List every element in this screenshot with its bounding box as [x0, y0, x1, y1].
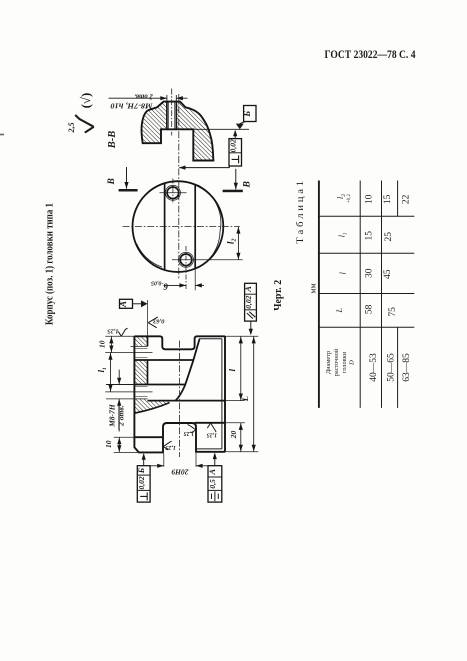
dimension 6-0,05 [164, 284, 187, 286]
svg-text:22: 22 [402, 194, 412, 204]
svg-text:Т а б л и ц а 1: Т а б л и ц а 1 [295, 181, 306, 244]
svg-text:М8-7Н, h10: М8-7Н, h10 [110, 102, 153, 111]
svg-text:1,25: 1,25 [165, 444, 176, 450]
svg-text:0,5: 0,5 [208, 479, 217, 489]
svg-text:0,02: 0,02 [137, 476, 146, 489]
svg-text:10: 10 [365, 194, 375, 204]
svg-text:мм: мм [309, 283, 318, 293]
hole2 bottom edge [106, 398, 148, 400]
svg-text:75: 75 [388, 307, 398, 317]
perpendicularity frame leader up arrow [234, 131, 236, 139]
hole1 thread lines [134, 347, 147, 349]
svg-text:расточной: расточной [333, 348, 340, 376]
main section view [96, 283, 258, 502]
datum A extension line [147, 300, 149, 336]
dimension 20Н9 [163, 454, 165, 467]
inner chamfer arc right [197, 185, 221, 268]
svg-text:В: В [107, 178, 117, 185]
M8 hole centerline [171, 89, 173, 136]
dimension 10 bottom left [114, 436, 135, 438]
svg-text:1,25: 1,25 [184, 430, 195, 436]
slot chord left [164, 183, 166, 269]
top chamfer line [199, 338, 222, 340]
dimension l2 [237, 227, 239, 260]
bottom face ext right [225, 451, 258, 453]
horizontal centerline [123, 226, 240, 228]
step line bottom left [134, 436, 163, 438]
M8 dimension line [109, 95, 188, 101]
svg-text:40—53: 40—53 [369, 353, 379, 382]
table grid [318, 181, 414, 408]
M8 hole bore lines [166, 102, 168, 130]
svg-text:D: D [349, 360, 356, 366]
dimension L right [253, 336, 255, 452]
svg-text:15: 15 [383, 194, 393, 204]
hole1 bottom / bore step 1 [134, 359, 193, 361]
svg-text:В-В: В-В [107, 131, 118, 150]
svg-text:15: 15 [365, 231, 375, 241]
dimension 20 right [240, 423, 242, 452]
top face ext left [105, 335, 134, 337]
hole1 top edge [131, 345, 148, 347]
svg-text:головки: головки [341, 351, 348, 373]
svg-text:l: l [339, 271, 348, 274]
general roughness mark 2,5 (rotated) [75, 115, 94, 133]
svg-text:ГОСТ 23022—78 С. 4: ГОСТ 23022—78 С. 4 [325, 49, 416, 61]
hole2 centerline / ext [105, 391, 152, 393]
svg-text:63—85: 63—85 [402, 353, 412, 382]
main outline: top face with notch [134, 336, 225, 349]
svg-text:l2: l2 [227, 238, 238, 244]
svg-text:Диаметр: Диаметр [325, 351, 332, 374]
svg-text:А: А [243, 286, 253, 293]
hole1 centerline / ext [105, 352, 152, 354]
bottom chamfer line [197, 448, 222, 450]
M8 callout arrows [118, 370, 120, 385]
top face ext right [225, 335, 258, 337]
svg-text:(√): (√) [78, 93, 93, 109]
dimension l right [240, 336, 242, 400]
circle view [123, 179, 243, 292]
main outline: bottom right and slot [134, 336, 225, 452]
svg-text:2,5: 2,5 [67, 123, 76, 134]
section plane mark В left [119, 189, 138, 192]
svg-text:10: 10 [104, 440, 113, 448]
flange hatch band 1 [134, 336, 147, 346]
interior bottom ext right [225, 400, 245, 402]
svg-text:20Н9: 20Н9 [171, 467, 189, 476]
svg-text:0,02: 0,02 [244, 295, 253, 308]
svg-text:2 отв.: 2 отв. [117, 405, 126, 427]
svg-text:45: 45 [383, 269, 393, 279]
svg-text:2 отв.: 2 отв. [134, 92, 154, 100]
svg-text:А: А [118, 301, 128, 308]
svg-text:58: 58 [365, 304, 375, 314]
M8 thread thin lines [168, 102, 170, 129]
inner chamfer arc left [137, 244, 163, 268]
part axis centerline [178, 94, 180, 280]
svg-text:1,25: 1,25 [207, 431, 218, 437]
bottom hole [180, 254, 192, 266]
shoulder ext right [225, 422, 245, 424]
shoulder line right of slot [195, 422, 225, 424]
roughness 1,25 top left [118, 328, 127, 336]
right chamfer line [221, 339, 223, 449]
svg-text:1,25: 1,25 [106, 328, 118, 335]
parallelism frame [245, 283, 257, 321]
B-B view [107, 89, 256, 281]
svg-text:10: 10 [98, 340, 107, 348]
outer circle [133, 181, 224, 272]
B-B hatched body left lobe [142, 102, 167, 144]
svg-text:В: В [242, 181, 252, 188]
svg-text:20: 20 [229, 431, 238, 440]
hole2 thread lines [134, 386, 147, 388]
svg-text:25: 25 [384, 232, 394, 242]
dimension 10 top [110, 336, 112, 352]
dimension l1 [110, 353, 112, 392]
svg-text:l2: l2 [336, 194, 347, 199]
svg-text:Корпус (поз. 1) головки типа 1: Корпус (поз. 1) головки типа 1 [45, 203, 56, 325]
svg-text:0,63: 0,63 [152, 318, 164, 325]
svg-text:l: l [227, 368, 237, 371]
bowl curve [176, 339, 200, 401]
interior bottom face [148, 400, 226, 402]
roughness 1,25 slot right wall [188, 424, 196, 433]
main outline: right wall [224, 336, 226, 452]
svg-text:6-0,05: 6-0,05 [151, 280, 168, 292]
page left-edge scan line [0, 134, 4, 136]
svg-text:Черт. 2: Черт. 2 [273, 280, 284, 311]
roughness 0,63 [148, 317, 158, 328]
perpendicularity frame leader to axis [229, 166, 231, 168]
outer bottom curve of bowl [134, 403, 169, 414]
datum A flag [120, 299, 133, 308]
svg-text:L: L [335, 308, 344, 314]
left tolerance frame ⊥ 0,02 Б [137, 466, 150, 502]
svg-text:М8-7Н: М8-7Н [108, 403, 117, 428]
svg-text:0,02: 0,02 [228, 139, 237, 152]
roughness 1,25 slot left wall [163, 441, 171, 450]
slot chord right [194, 185, 196, 268]
flange inner wall segments [147, 336, 149, 346]
bottom wall hatch wedge [134, 399, 169, 413]
svg-text:l1: l1 [96, 367, 108, 372]
svg-text:Б: Б [136, 467, 146, 474]
section plane mark В right [223, 190, 243, 193]
svg-text:50—65: 50—65 [387, 353, 397, 382]
svg-text:Б: Б [242, 111, 252, 118]
B-B hatched body right dome and leg [176, 102, 213, 161]
roughness 1,25 shoulder [207, 423, 216, 432]
datum Б triangle [236, 124, 244, 130]
svg-text:l1: l1 [337, 232, 348, 237]
datum Б extension line [193, 128, 249, 130]
svg-text:L: L [240, 396, 250, 402]
perpendicularity frame 0,02 [229, 139, 242, 166]
svg-text:30: 30 [365, 268, 375, 278]
svg-text:А: А [207, 469, 217, 476]
right chord extension down [194, 268, 196, 290]
main axis centerline [179, 341, 181, 458]
parallelism leader down arrow [250, 321, 252, 333]
svg-text:+0,2: +0,2 [347, 193, 352, 203]
table Таблица 1 [295, 181, 414, 408]
flange hatch band 2 [134, 360, 147, 384]
datum Б flag box [244, 106, 256, 122]
B-B outline [142, 102, 214, 161]
hole2 top / bore step 2 [134, 384, 184, 386]
right tolerance frame symmetry 0,5 А [208, 466, 222, 502]
top hole [167, 187, 179, 199]
